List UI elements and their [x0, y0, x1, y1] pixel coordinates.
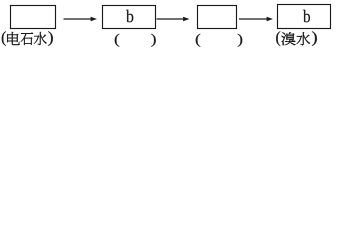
arrow 1 (box1 to box2) [64, 17, 98, 22]
label 1 under box 1: (电石水) opening parenthesis [2, 31, 6, 46]
letter b inside box 4 [303, 10, 310, 23]
label 1 closing parenthesis [48, 31, 52, 46]
flowchart box 2 (contains letter b) [103, 6, 156, 29]
arrow 2 (box2 to box3) [157, 17, 190, 22]
flowchart box 1 (empty, reactant 电石+水) [11, 6, 56, 29]
flowchart box 3 (empty) [198, 6, 237, 29]
label 4 closing parenthesis [312, 31, 317, 46]
flowchart box 4 (contains letter b) [278, 5, 331, 29]
arrow 3 (box3 to box4) [239, 17, 273, 22]
label 2 closing parenthesis [151, 34, 155, 47]
label 4 character 水 [297, 32, 310, 45]
label 3 under box 3: empty parentheses, opening [196, 34, 200, 47]
label 1 character 水 [34, 32, 47, 45]
label 4 character 溴 [281, 32, 295, 45]
letter b inside box 2 [126, 10, 133, 23]
label 4 under box 4: (溴水) opening parenthesis [276, 31, 280, 46]
label 1 character 石 [21, 32, 33, 45]
label 2 under box 2: empty parentheses, opening [115, 34, 119, 47]
label 1 character 电 [7, 32, 19, 45]
label 3 closing parenthesis [238, 34, 242, 47]
